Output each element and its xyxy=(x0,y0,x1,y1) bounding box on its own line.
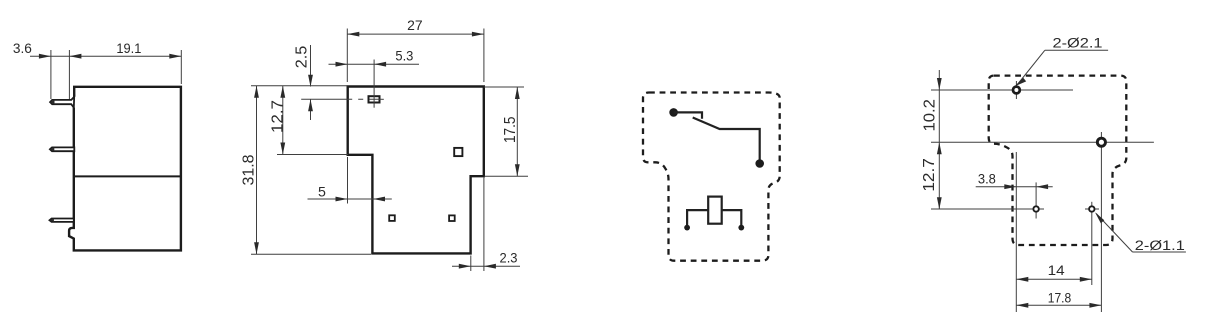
dim 5.3 xyxy=(329,63,420,65)
dim 5 xyxy=(347,157,349,204)
slot pin top xyxy=(369,96,380,102)
svg-text:17.8: 17.8 xyxy=(1048,290,1072,306)
svg-text:12.7: 12.7 xyxy=(921,158,938,192)
svg-text:2-Ø2.1: 2-Ø2.1 xyxy=(1053,35,1103,51)
pin 2 (middle) xyxy=(50,147,74,151)
svg-text:3.6: 3.6 xyxy=(13,41,32,57)
coil left lead xyxy=(687,210,708,227)
extension bottom edge left xyxy=(251,253,371,255)
svg-text:2.3: 2.3 xyxy=(500,250,518,266)
square pin bottom left xyxy=(389,215,395,221)
hole H1 centerlines xyxy=(931,89,1073,91)
contact fixed terminal wire xyxy=(674,112,702,118)
label 2-d2.1 leader xyxy=(1045,49,1108,51)
pin 2 tip fill xyxy=(50,147,54,151)
extension left step xyxy=(277,154,348,156)
svg-text:14: 14 xyxy=(1048,263,1065,279)
coil right lead xyxy=(722,210,742,227)
hole H2 (2.1) xyxy=(1097,138,1105,146)
svg-text:10.2: 10.2 xyxy=(921,99,938,132)
dim 10.2 / 12.7 shared line xyxy=(938,70,940,209)
coil rectangle xyxy=(708,197,722,224)
extension top edge left xyxy=(251,85,348,87)
hole H3 (1.1) xyxy=(1033,206,1038,211)
reference line (pin datum) xyxy=(1015,152,1017,312)
body divider line xyxy=(74,175,181,177)
svg-text:19.1: 19.1 xyxy=(116,41,141,57)
dim 2.3 xyxy=(470,256,472,272)
square pin mid right xyxy=(454,148,462,156)
contact dot left (common) xyxy=(669,108,678,117)
arrow 19.1 right xyxy=(169,54,181,59)
svg-text:12.7: 12.7 xyxy=(269,100,286,133)
hole H4 centerlines xyxy=(1085,208,1099,210)
svg-text:2.5: 2.5 xyxy=(294,46,311,69)
coil dot right xyxy=(738,225,744,231)
arrow 3.6/19.1 shared xyxy=(69,54,81,59)
svg-text:2-Ø1.1: 2-Ø1.1 xyxy=(1135,238,1185,254)
dim 12.7 vertical xyxy=(282,86,284,155)
dim 2.5 vertical xyxy=(310,45,312,87)
dim 31.8 vertical xyxy=(256,86,258,255)
dimension line top (3.6 / 19.1) xyxy=(30,55,181,57)
svg-text:5: 5 xyxy=(318,184,326,200)
pin 3 tip fill xyxy=(50,219,54,222)
switch blade xyxy=(693,118,760,164)
slot centerline horizontal xyxy=(301,98,384,100)
dim 17.5 vertical xyxy=(484,86,524,88)
svg-text:17.5: 17.5 xyxy=(502,117,519,144)
label 2-d1.1 leader xyxy=(1096,214,1132,253)
dashed pcb outline xyxy=(989,76,1127,245)
extension line body right xyxy=(180,50,182,84)
pin 1 (top) xyxy=(50,97,74,108)
svg-text:3.8: 3.8 xyxy=(978,172,996,188)
svg-text:27: 27 xyxy=(407,18,423,34)
hole H1 (2.1) xyxy=(1013,87,1020,94)
svg-text:31.8: 31.8 xyxy=(240,154,257,185)
extension line pin tip xyxy=(50,50,52,99)
arrow 3.6 left xyxy=(39,54,51,59)
pin 1 tip fill xyxy=(50,100,54,104)
slot centerline vertical xyxy=(373,60,375,108)
hole H2 centerlines xyxy=(931,141,1154,143)
dashed relay outline xyxy=(643,93,780,261)
contact dot right xyxy=(755,159,764,168)
square pin bottom right xyxy=(449,215,455,221)
dim 17.8 xyxy=(1016,304,1101,306)
pin 3 (bottom) xyxy=(50,219,74,222)
dim 27 xyxy=(347,33,484,35)
coil dot left xyxy=(684,225,690,231)
hole H3 centerlines xyxy=(931,208,1044,210)
svg-text:5.3: 5.3 xyxy=(395,49,413,65)
relay body outline xyxy=(69,87,181,251)
extension line pin shoulder xyxy=(68,50,70,99)
dim 3.8 xyxy=(976,186,1053,188)
hole H4 (1.1) xyxy=(1089,206,1094,211)
dim 14 xyxy=(1016,278,1092,280)
outline bottom view xyxy=(348,87,484,254)
